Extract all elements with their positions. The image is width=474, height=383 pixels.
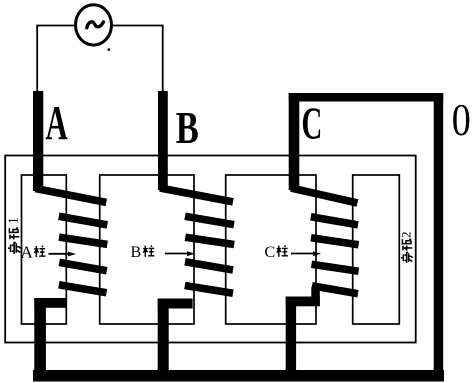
core window 2 — [100, 175, 194, 324]
leader arrow for A柱 — [68, 252, 76, 257]
coil C output elbow — [286, 297, 320, 307]
AC source tilde mark — [87, 22, 104, 28]
coil C turn 4 (bottom) — [312, 286, 358, 294]
side yoke 2 label (rotated 旁轭2) — [399, 232, 414, 264]
coil A turn 3 — [59, 262, 107, 270]
phase C loop: top bar — [289, 93, 444, 102]
phase C loop: right bar (neutral riser) — [434, 93, 444, 378]
coil A turn 1 — [59, 216, 108, 225]
wire from source right terminal to bar B — [112, 26, 163, 92]
svg-text:2: 2 — [399, 232, 414, 239]
svg-text:B: B — [176, 102, 199, 153]
coil B output elbow — [158, 299, 193, 309]
stray dot artifact — [107, 48, 110, 51]
svg-text:A: A — [21, 243, 34, 262]
wire from source left terminal to bar A — [37, 26, 75, 93]
coil B turn 4 (bottom) — [185, 286, 233, 294]
terminal bar A (thick) — [33, 91, 43, 191]
coil C connector stub — [311, 287, 320, 300]
coil A output riser to bottom bus — [34, 298, 46, 382]
AC source U1 — [76, 5, 112, 45]
core outer outline — [5, 156, 416, 343]
coil B turn 1 — [185, 216, 234, 224]
core window 3 — [226, 175, 316, 324]
leader arrow for C柱 — [313, 251, 321, 256]
label A柱 — [21, 243, 46, 262]
label B柱 — [131, 244, 155, 261]
svg-text:A: A — [46, 96, 69, 150]
coil A incoming turn from bar A — [36, 189, 107, 203]
leader arrow for B柱 — [187, 251, 195, 256]
svg-text:C: C — [302, 99, 323, 149]
coil A winding — [36, 189, 108, 293]
leader line for C柱 — [291, 253, 313, 255]
label C柱 — [265, 244, 288, 261]
coil C winding — [291, 188, 359, 294]
coil C turn 3 — [312, 264, 359, 271]
coil B turn 3 — [185, 262, 233, 270]
side yoke 1 label (rotated 旁轭1) — [6, 217, 21, 254]
coil B incoming turn from bar B — [160, 188, 233, 202]
terminal bar B (thick) — [158, 91, 168, 190]
coil B output riser to bottom bus — [158, 299, 169, 382]
coil B winding — [160, 188, 234, 293]
coil A output elbow — [34, 298, 66, 308]
phase C loop: left bar — [289, 93, 300, 190]
core window 1 — [22, 175, 67, 324]
svg-text:C: C — [265, 244, 276, 261]
leader line for A柱 — [49, 253, 71, 255]
coil C output riser to bottom bus — [286, 297, 296, 382]
svg-text:B: B — [131, 244, 142, 261]
bottom bus bar (thick) — [33, 370, 444, 382]
coil C turn 2 — [311, 238, 359, 245]
svg-text:1: 1 — [6, 217, 21, 224]
coil A turn 4 (bottom) — [59, 285, 107, 293]
svg-text:0: 0 — [452, 95, 471, 146]
coil A turn 2 — [59, 237, 107, 244]
core window 4 — [353, 175, 400, 324]
leader line for B柱 — [165, 253, 187, 255]
coil C incoming turn from phase C left bar — [291, 188, 358, 203]
coil B turn 2 — [185, 237, 234, 244]
coil C turn 1 — [311, 217, 358, 225]
